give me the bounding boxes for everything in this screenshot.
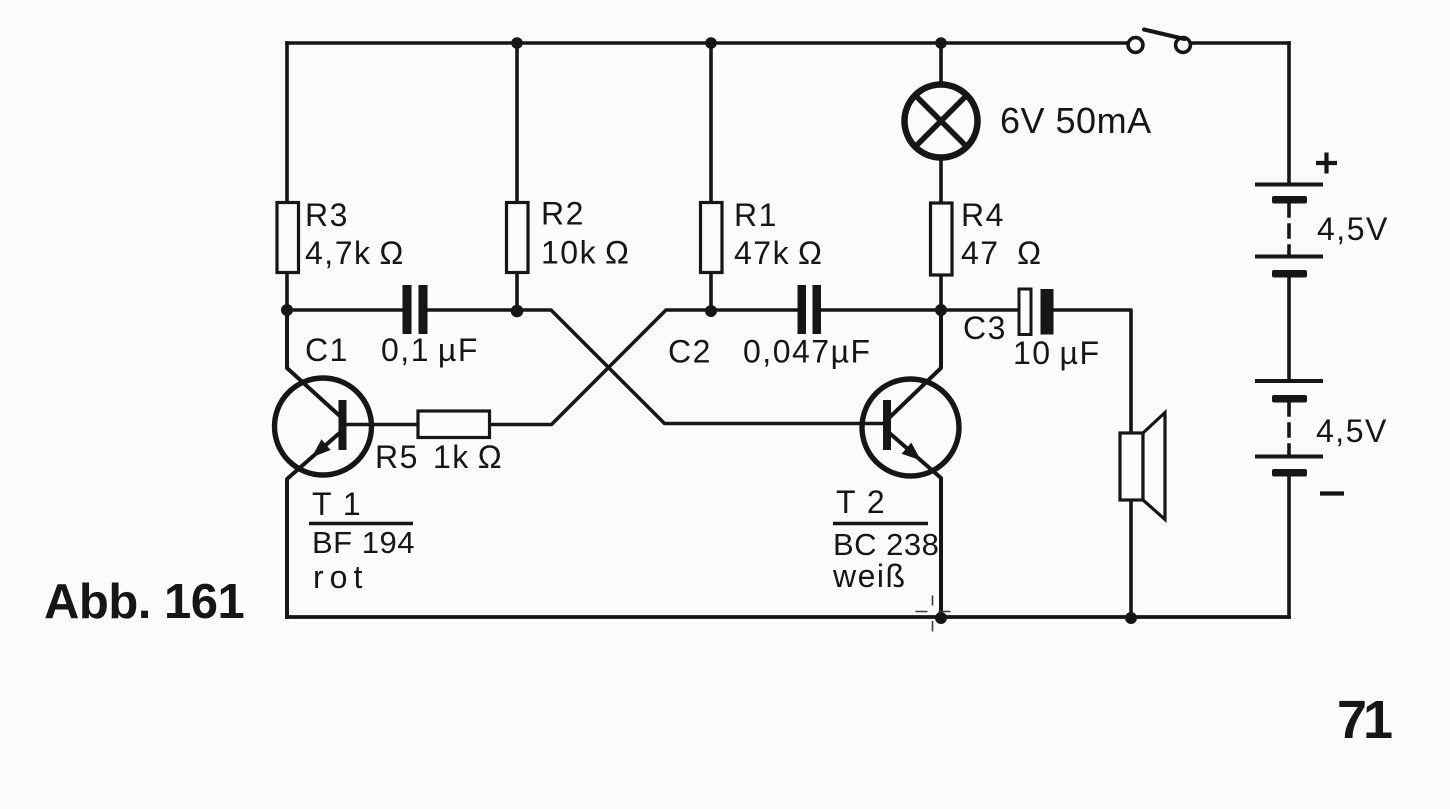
svg-text:Abb. 161: Abb. 161 bbox=[44, 575, 244, 629]
svg-text:10 µF: 10 µF bbox=[1013, 335, 1100, 371]
svg-text:BF 194: BF 194 bbox=[312, 525, 415, 560]
svg-text:0,047µF: 0,047µF bbox=[743, 334, 872, 370]
svg-text:T 1: T 1 bbox=[312, 486, 362, 522]
svg-text:10k Ω: 10k Ω bbox=[541, 235, 630, 271]
svg-text:C2: C2 bbox=[668, 334, 712, 370]
svg-text:R5: R5 bbox=[375, 439, 419, 475]
svg-text:47 Ω: 47 Ω bbox=[961, 235, 1043, 271]
svg-text:R3: R3 bbox=[305, 197, 349, 233]
svg-text:1k Ω: 1k Ω bbox=[433, 439, 503, 475]
svg-text:R2: R2 bbox=[541, 196, 585, 232]
svg-text:C3: C3 bbox=[963, 310, 1007, 346]
svg-text:BC 238: BC 238 bbox=[833, 527, 939, 562]
svg-text:71: 71 bbox=[1337, 690, 1392, 750]
svg-text:4,5V: 4,5V bbox=[1317, 211, 1389, 247]
svg-text:R1: R1 bbox=[734, 197, 778, 233]
svg-text:0,1 µF: 0,1 µF bbox=[381, 332, 479, 368]
svg-text:C1: C1 bbox=[305, 332, 349, 368]
svg-text:47k Ω: 47k Ω bbox=[734, 235, 823, 271]
svg-text:T 2: T 2 bbox=[836, 484, 886, 520]
svg-text:6V 50mA: 6V 50mA bbox=[1000, 100, 1152, 141]
svg-text:R4: R4 bbox=[961, 197, 1005, 233]
svg-text:4,5V: 4,5V bbox=[1316, 413, 1388, 449]
svg-text:rot: rot bbox=[313, 559, 368, 595]
svg-text:weiß: weiß bbox=[832, 558, 907, 594]
svg-text:4,7k Ω: 4,7k Ω bbox=[305, 235, 405, 271]
